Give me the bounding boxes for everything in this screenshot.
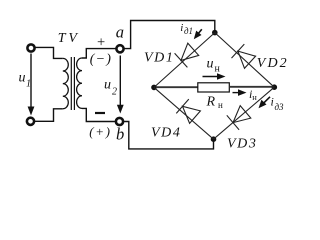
svg-text:(+): (+) xyxy=(89,124,111,139)
diode VD4 xyxy=(176,99,200,123)
wire secondary top xyxy=(82,49,116,58)
svg-text:н: н xyxy=(215,63,221,74)
svg-text:1: 1 xyxy=(26,79,31,90)
input terminal top-left xyxy=(27,44,34,51)
diode VD2 xyxy=(232,44,256,68)
svg-text:i: i xyxy=(271,95,274,109)
label i_д3 xyxy=(271,95,285,113)
wire bridge edge bottom-left xyxy=(154,87,214,139)
wire left junction to resistor xyxy=(156,86,199,88)
voltage arrow u1 xyxy=(28,54,35,116)
node b terminal xyxy=(116,118,123,125)
wire primary bottom xyxy=(35,109,63,122)
input terminal bottom-left xyxy=(27,118,34,125)
svg-text:u: u xyxy=(19,71,26,86)
label i_д1 xyxy=(180,22,193,36)
wire bridge edge bottom-right xyxy=(214,87,275,139)
diode VD3 xyxy=(227,106,251,130)
svg-text:u: u xyxy=(207,57,214,72)
svg-text:b: b xyxy=(116,125,124,144)
svg-text:н: н xyxy=(252,92,257,102)
svg-text:VD1: VD1 xyxy=(144,51,174,66)
svg-text:VD2: VD2 xyxy=(257,56,289,71)
current arrow i_д1 xyxy=(194,29,202,39)
wire resistor to right junction xyxy=(229,86,272,88)
svg-text:н: н xyxy=(218,100,223,110)
bridge junction top xyxy=(212,30,218,36)
label - (bottom) xyxy=(95,112,105,114)
svg-text:i: i xyxy=(180,22,183,34)
current arrow i_д3 xyxy=(259,97,271,108)
transformer TV secondary winding xyxy=(77,58,82,108)
diode VD1 xyxy=(175,43,199,67)
transformer TV primary winding xyxy=(63,58,69,108)
svg-text:R: R xyxy=(206,95,216,110)
label u2 xyxy=(104,78,117,98)
wire node b to bridge bottom xyxy=(123,122,214,149)
svg-text:+: + xyxy=(97,34,105,50)
label i_н xyxy=(249,87,257,102)
svg-text:u: u xyxy=(104,78,111,93)
voltage arrow u2 xyxy=(117,56,124,114)
bridge junction left xyxy=(151,85,157,91)
wire bridge edge top-left xyxy=(154,33,215,88)
svg-text:2: 2 xyxy=(112,87,117,98)
transformer TV core xyxy=(71,57,74,110)
bridge junction bottom xyxy=(211,136,217,142)
label u_н xyxy=(207,57,221,75)
label u1 xyxy=(19,71,32,90)
svg-text:VD3: VD3 xyxy=(227,137,257,152)
wire primary top xyxy=(35,47,63,58)
current arrow i_н xyxy=(233,89,247,96)
svg-text:TV: TV xyxy=(58,31,80,46)
wire node a to bridge top xyxy=(123,21,214,49)
label R_н xyxy=(206,95,224,110)
resistor R_н body xyxy=(198,83,230,92)
svg-text:(−): (−) xyxy=(90,52,112,67)
svg-text:д3: д3 xyxy=(275,102,285,112)
svg-text:a: a xyxy=(116,23,124,42)
node a terminal xyxy=(116,45,123,52)
bridge junction right xyxy=(272,84,278,90)
voltage arrow u_н (load) xyxy=(203,73,226,80)
wire secondary bottom xyxy=(82,108,115,121)
svg-text:д1: д1 xyxy=(184,26,193,36)
svg-text:VD4: VD4 xyxy=(151,126,181,141)
wire bridge edge top-right xyxy=(215,33,274,88)
